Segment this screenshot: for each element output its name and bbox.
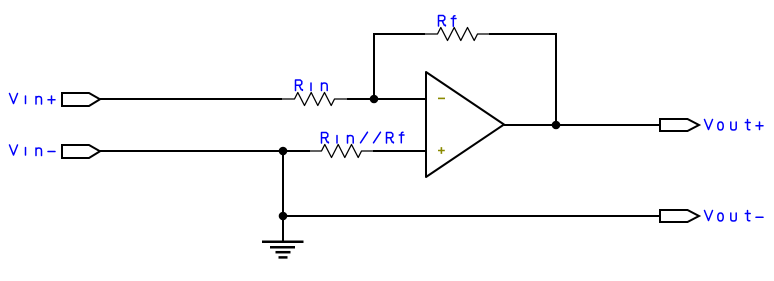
wire op-amp output to Vout+ port	[504, 124, 660, 126]
port VOUT-	[660, 210, 699, 222]
port VIN+	[62, 93, 100, 106]
wire feedback vertical right	[555, 33, 557, 125]
label Vout+	[705, 120, 764, 131]
wire Rf to feedback right corner	[489, 33, 557, 35]
op-amp U1	[426, 72, 504, 177]
wire Rin to op-amp inverting input	[347, 98, 426, 100]
label Rf	[439, 16, 457, 27]
ground	[262, 242, 304, 258]
wire Rin//Rf to op-amp non-inverting input	[373, 150, 426, 152]
wire feedback top left to Rf	[373, 33, 425, 35]
junction at inverting input / feedback	[370, 95, 379, 104]
wire vertical to ground	[282, 151, 284, 242]
label Vin-	[10, 145, 56, 156]
junction at output / feedback	[552, 121, 561, 130]
wire Vin- to Rin//Rf	[100, 150, 310, 152]
label Rin	[296, 80, 328, 91]
label Vout-	[705, 211, 764, 222]
wire bottom to Vout- port	[283, 215, 660, 217]
junction at ground branch / Vout- wire	[279, 212, 288, 221]
junction at Vin- / ground branch	[279, 147, 288, 156]
label Rin//Rf	[322, 132, 405, 143]
label Vin+	[10, 94, 56, 105]
resistor Rf	[425, 28, 489, 41]
op-amp non-inverting pin mark	[438, 147, 445, 154]
wire Vin+ to Rin	[100, 98, 282, 100]
resistor Rin//Rf	[309, 145, 373, 158]
wire feedback vertical left	[373, 34, 375, 100]
op-amp inverting pin mark	[438, 97, 445, 99]
port VOUT+	[660, 119, 699, 131]
resistor Rin	[282, 93, 347, 106]
port VIN-	[62, 145, 100, 158]
